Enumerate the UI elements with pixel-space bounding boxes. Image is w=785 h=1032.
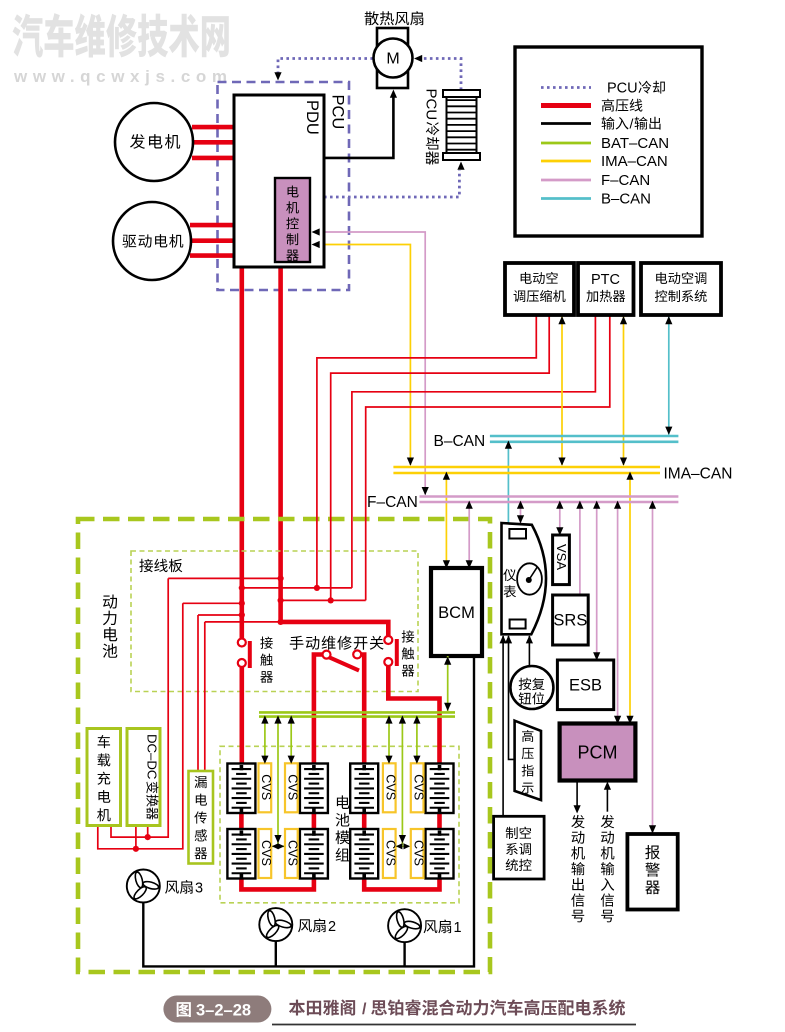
AC system control box [494,816,544,879]
wire black PDU to radiator fan [324,96,393,158]
svg-text:PCU: PCU [423,89,440,121]
green CVS links left half [264,718,266,762]
AC control system box [641,263,721,315]
svg-text:F–CAN: F–CAN [601,172,650,189]
cyan link AC control to B-CAN [668,316,670,435]
switch terminal right [353,650,361,658]
power battery dashed enclosure [78,519,490,972]
label fan3 [165,881,179,894]
wire generator phase 1 [192,125,235,130]
thin red wire A: charger rail to thick rail2 [168,577,280,579]
PCU cooler radiator [443,90,480,160]
thin red leak sensor pins [197,615,199,770]
battery cell r2c3 [350,829,378,879]
label power battery [103,594,117,608]
svg-text:CVS: CVS [259,840,273,866]
wire generator phase 3 [192,156,235,161]
battery cell r1c4 [426,764,454,814]
thin red riser to PTC heater pin2 [366,316,610,600]
label PCU cooler [423,89,440,165]
PCU cooling dotted line: PDU to cooler [324,170,459,197]
PCU cooling dotted line: cooler top to fan [421,59,461,91]
figure caption title [289,1000,305,1016]
svg-text:BCM: BCM [438,604,475,622]
reset button circle [510,666,553,709]
CVS box L2 [285,763,298,812]
legend box [515,47,702,236]
yellow link IMA-CAN to BCM [445,473,447,567]
svg-text:PCU: PCU [329,95,347,130]
svg-text:CVS: CVS [411,840,425,866]
black link cluster to AC system control [502,636,504,816]
CVS box L4 [285,829,298,878]
fan1 symbol [388,909,421,942]
contactor 2 lower terminal [384,658,392,666]
caption underline [272,1024,636,1026]
thin red wire E: leak sensor to rail2 [205,621,281,623]
battery cell r2c1 [227,829,255,879]
svg-text:SRS: SRS [553,612,587,630]
battery bottom U link left pair [241,877,314,889]
svg-text:F–CAN: F–CAN [367,494,418,511]
wire drive motor phase 1 [190,223,235,228]
motor controller box [275,178,310,262]
label fan2 [298,919,312,932]
svg-text:/: / [362,1001,367,1018]
black link cluster to HV indicator [509,636,515,759]
switch blade [329,657,360,671]
ESB box [557,660,613,710]
pink link F-CAN to instrument cluster [520,502,522,523]
wire pink F-CAN to motor controller [311,232,425,495]
thick red contactor1 to battery col1 [240,667,245,765]
radiator fan housing [377,28,408,88]
thin red drop charger right [111,578,168,837]
fan2 symbol [259,908,292,941]
label fan1 [424,920,438,933]
wire generator phase 2 [192,140,235,145]
svg-text:VSA: VSA [554,544,569,570]
pink link F-CAN to BCM [468,502,470,567]
PCU cooling dotted line: fan to PCU box top [278,59,373,75]
legend line IMA-CAN [541,160,591,163]
svg-text:CVS: CVS [411,774,425,800]
label battery module [337,795,350,809]
battery cell r1c1 [227,764,255,814]
label instrument cluster [503,569,516,581]
figure caption badge [163,996,271,1023]
junction dots [239,585,245,591]
high voltage indicator parallelogram [515,721,541,800]
switch wire to battery col2 [314,655,324,766]
junction board dashed box [131,551,418,692]
svg-text:CVS: CVS [286,840,300,866]
yellow link compressor to IMA-CAN [561,316,563,465]
pink link F-CAN to PCM [617,502,619,723]
DC-DC converter box [127,729,160,826]
thick red contactor2 feed [281,622,389,636]
PCM box [560,724,636,781]
pink link F-CAN to ESB [596,502,598,660]
svg-text:IMA–CAN: IMA–CAN [601,153,668,170]
VSA box [553,535,570,585]
thin red riser to AC compressor pin1 [317,316,536,588]
fan wiring black bus [143,657,474,966]
yellow link IMA-CAN to PCM [629,473,631,723]
alarm box [627,834,677,910]
wire yellow IMA-CAN to motor controller [311,245,410,466]
label contactor 2 [402,630,415,642]
svg-text:M: M [386,51,399,68]
cluster gauge [517,563,542,594]
svg-text:CVS: CVS [383,774,397,800]
battery cell r1c3 [350,764,378,814]
switch wire to battery col3 [360,655,365,766]
battery cell r2c4 [426,829,454,879]
PCM engine input signal line [606,789,608,812]
CVS box R4 [411,829,424,878]
PTC heater box [578,263,634,315]
svg-text:1: 1 [454,920,462,936]
black link cluster to reset button [528,636,530,667]
radiator fan motor M [374,39,413,78]
battery bottom U link right pair [364,877,439,889]
svg-text:PCU: PCU [607,81,638,97]
svg-text:3–2–28: 3–2–28 [196,1002,251,1020]
legend line high voltage [541,103,591,108]
CVS box R2 [411,763,424,812]
thin red wire C2: DC-DC rail to rail1 [183,602,242,604]
svg-text:IMA–CAN: IMA–CAN [664,466,733,483]
wire drive motor phase 3 [190,253,235,258]
svg-text:2: 2 [328,919,336,935]
watermark logo text [13,13,229,57]
thin red riser to PTC heater pin1 [352,316,596,588]
IMA-CAN bus [393,466,660,469]
svg-text:B–CAN: B–CAN [434,433,486,450]
yellow link PTC to IMA-CAN [623,316,625,465]
label PDU [303,100,321,135]
svg-text:CVS: CVS [286,774,300,800]
pink link F-CAN to VSA [559,502,561,535]
green link BCM to BAT-CAN [447,656,449,711]
green CVS mid drop left half [277,718,279,845]
thin red riser to AC compressor pin2 [331,316,550,600]
label junction board [139,559,153,572]
manual service switch label [290,636,304,650]
thin red DC-DC pins [135,824,137,849]
legend line input/output [541,122,591,125]
legend line B-CAN [541,197,591,200]
contactor 1 upper terminal [238,639,246,647]
on-board charger box [87,729,121,826]
battery cell r1c2 [300,764,328,814]
green CVS links right half [388,718,390,762]
pink link F-CAN to alarm [652,502,654,833]
legend line PCU cooling [541,86,591,89]
wire thick red PDU down rail 2 [278,265,283,622]
CVS box L1 [259,763,272,812]
B-CAN bus [490,435,679,438]
svg-text:PTC: PTC [591,272,620,288]
svg-text:CVS: CVS [383,840,397,866]
cluster top lamp [509,529,526,539]
battery series links between rows [239,811,244,831]
BAT-CAN green bus [259,711,455,714]
svg-text:DC–DC: DC–DC [145,734,160,780]
switch terminal left [323,651,331,659]
pink link F-CAN to SRS [579,502,581,595]
PDU box [234,95,324,267]
cluster bottom lamp [510,620,526,629]
thick red contactor2 to battery col4 [388,666,439,765]
CVS box L3 [259,829,272,878]
label PCU [329,95,347,130]
arrowheads [390,90,397,98]
F-CAN bus [420,495,679,498]
contactor 2 bar [395,639,399,666]
svg-text:ESB: ESB [569,677,602,695]
svg-text:/: / [630,116,634,132]
drive motor circle [113,202,191,280]
thin red wire B: rail1 to AC compressor feeds [242,587,352,589]
cyan link B-CAN to instrument cluster [507,442,509,524]
SRS box [553,595,589,645]
wire drive motor phase 2 [190,238,235,243]
label engine output signal [571,815,584,828]
generator circle [115,103,193,181]
svg-text:B–CAN: B–CAN [601,191,651,208]
contactor 2 upper terminal [384,636,392,644]
svg-text:BAT–CAN: BAT–CAN [601,135,669,152]
BCM box [431,568,482,656]
radiator fan label [365,11,379,25]
CVS box R1 [383,763,396,812]
label contactor 1 [260,637,273,649]
svg-text:3: 3 [195,881,203,897]
thin red drop charger left [98,603,183,849]
wire thick red PDU down rail 1 [240,265,245,638]
leak sensor box [189,771,214,864]
legend line BAT-CAN [541,142,591,145]
svg-text:CVS: CVS [259,774,273,800]
label engine input signal [601,815,614,828]
fan3 symbol [127,870,160,903]
contactor 1 lower terminal [238,659,246,667]
green CVS mid drop right half [401,718,403,845]
instrument cluster outline [502,523,547,634]
CVS box R3 [383,829,396,878]
PCU dashed enclosure [218,82,350,290]
battery module dashed box [220,746,459,903]
AC compressor box [505,263,574,315]
contactor 1 bar [248,641,252,668]
thin red wire C: rail2 to PTC feeds [281,599,366,601]
legend line F-CAN [541,179,591,182]
svg-text:PDU: PDU [303,100,321,135]
battery cell r2c2 [300,829,328,879]
PCM engine output signal line [576,781,578,807]
svg-text:PCM: PCM [578,743,618,763]
thin red wire D: leak sensor to rail1 [198,614,242,616]
